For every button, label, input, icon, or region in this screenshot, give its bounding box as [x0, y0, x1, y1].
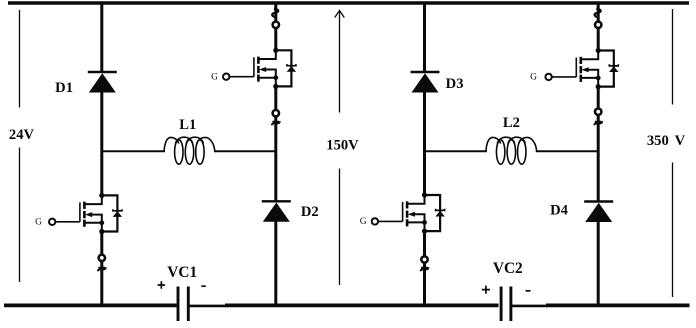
- wire leg2 middle (M2 source to D2): [274, 86, 277, 201]
- terminal squiggle below M4: [594, 121, 602, 125]
- terminal squiggle below M3: [421, 267, 429, 271]
- transistor M1 high-side MOSFET leg2: [223, 48, 296, 89]
- terminal circle below M4: [595, 109, 601, 115]
- svg-text:D1: D1: [55, 80, 73, 96]
- svg-text:VC1: VC1: [167, 264, 197, 281]
- transistor M3 low-side MOSFET leg3: [372, 192, 445, 233]
- label minus of VC2: [526, 290, 531, 292]
- svg-text:G: G: [211, 73, 218, 83]
- transistor M4 high-side MOSFET leg4: [545, 48, 618, 89]
- terminal circle below M2: [99, 255, 105, 261]
- svg-text:L1: L1: [179, 117, 196, 133]
- wire leg2 top (rail to M2 drain): [274, 3, 277, 50]
- label plus of VC2: [482, 286, 490, 294]
- wire L1 right lead: [214, 150, 276, 152]
- wire bottom rail left segment: [4, 303, 177, 307]
- wire bottom rail right thin segment: [512, 305, 547, 308]
- svg-text:350 V: 350 V: [647, 133, 686, 149]
- wire bottom rail right segment: [546, 303, 690, 307]
- wire bottom rail middle thin segment: [189, 305, 226, 308]
- inductor L1: [164, 137, 215, 164]
- terminal squiggle below M2: [98, 267, 106, 271]
- node 150V arrow line upper: [335, 11, 345, 113]
- label plus of VC1: [158, 281, 166, 288]
- svg-text:G: G: [360, 217, 367, 227]
- svg-text:L2: L2: [503, 115, 520, 131]
- wire leg3 top (rail to D3): [423, 3, 426, 72]
- diode D3: [411, 72, 440, 93]
- inductor L2: [486, 137, 537, 164]
- svg-text:D2: D2: [301, 204, 319, 220]
- svg-text:D3: D3: [446, 76, 464, 92]
- wire leg4 middle (M4 source to D4): [597, 87, 600, 202]
- wire L1 left lead: [102, 150, 165, 152]
- wire bottom rail middle segment: [225, 303, 499, 307]
- terminal squiggle above M1: [272, 9, 278, 18]
- node 24V measurement line lower: [19, 148, 21, 283]
- wire leg4 bottom (D4 to bottom rail): [597, 221, 600, 307]
- svg-text:G: G: [530, 73, 537, 83]
- terminal squiggle below M1: [272, 121, 280, 125]
- wire leg3 bottom (M3 source to bottom rail): [423, 231, 426, 306]
- terminal circle below M1: [273, 110, 279, 116]
- node 350V measurement line upper: [672, 9, 674, 105]
- capacitor VC2: [501, 287, 511, 322]
- wire leg1 middle (D1 to M1 drain): [100, 92, 103, 195]
- terminal squiggle above M4: [595, 9, 601, 18]
- terminal circle above M4: [595, 22, 601, 28]
- svg-text:24V: 24V: [9, 127, 35, 143]
- wire top rail: [8, 1, 689, 5]
- node 350V measurement line lower: [672, 163, 674, 298]
- wire leg1 top (rail to D1): [100, 3, 103, 72]
- svg-text:150V: 150V: [326, 137, 359, 153]
- transistor M2 low-side MOSFET leg1: [49, 193, 122, 234]
- wire L2 left lead: [425, 150, 487, 152]
- node 150V line lower: [339, 169, 341, 286]
- wire leg1 bottom (M1 source to bottom rail): [100, 232, 103, 307]
- capacitor VC1: [178, 287, 188, 322]
- terminal circle above M1: [273, 22, 279, 28]
- wire leg3 middle (D3 to M3 drain): [423, 92, 426, 195]
- diode D4: [584, 202, 613, 223]
- diode D2: [262, 201, 291, 222]
- wire leg4 top (rail to M4 drain): [597, 3, 600, 51]
- terminal circle below M3: [421, 256, 427, 262]
- wire L2 right lead: [536, 150, 598, 152]
- diode D1: [88, 72, 117, 93]
- node 24V measurement line upper: [19, 10, 21, 108]
- svg-text:VC2: VC2: [493, 260, 523, 277]
- wire leg2 bottom (D2 to bottom rail): [274, 221, 277, 307]
- svg-text:G: G: [35, 218, 42, 228]
- svg-text:D4: D4: [550, 203, 569, 219]
- label minus of VC1: [201, 285, 205, 287]
